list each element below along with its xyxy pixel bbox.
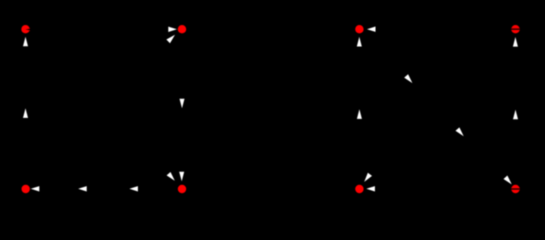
arrow end D->C (left, right of C)	[31, 186, 40, 191]
node E (top-left)	[355, 25, 363, 33]
black slit through node H	[510, 188, 521, 190]
arrow mid1 D->C (left, bottom edge)	[78, 186, 87, 191]
node C (bottom-left)	[22, 185, 30, 193]
arrow end H->F (up, below F)	[513, 37, 518, 47]
arrow end B->D (down, above D)	[179, 172, 184, 182]
arrow mid C->A (up, mid left edge)	[23, 108, 28, 118]
arrow mid B->D (down, mid right edge)	[180, 99, 185, 109]
arrow end A->B (right, left of B)	[168, 27, 177, 32]
arrow mid H->F (up, mid right edge)	[513, 110, 518, 120]
arrow mid G->E (up, mid left edge)	[357, 109, 362, 119]
node G (bottom-left)	[355, 185, 363, 193]
arrow end G->E (up, below E)	[357, 37, 362, 47]
arrow end C->B (diagonal NE, below-left of B)	[166, 33, 176, 43]
arrow end A->D (diagonal SE, above-left of D)	[167, 172, 177, 183]
node A (top-left)	[21, 25, 29, 33]
black slit through node F	[510, 28, 521, 30]
node D (bottom-right)	[178, 185, 186, 193]
arrow end C->A (up, below A)	[23, 37, 28, 47]
arrow end H->G (left, right of G)	[366, 186, 375, 191]
arrow mid2 E->H (diagonal SE)	[455, 127, 465, 138]
arrow end F->G (diagonal SW, above-right of G)	[362, 173, 372, 184]
arrow end E->H (diagonal SE, above-left of H)	[503, 176, 513, 187]
black notch on node A (hidden arrowhead of edge B->A)	[26, 28, 32, 31]
node B (top-right)	[178, 25, 186, 33]
arrow end F->E (left, right of E)	[367, 27, 376, 32]
node F (top-right)	[511, 25, 519, 33]
node H (bottom-right)	[511, 185, 519, 193]
arrow mid2 D->C (left, bottom edge)	[129, 186, 138, 191]
arrow mid1 E->H (diagonal SE)	[404, 74, 414, 85]
